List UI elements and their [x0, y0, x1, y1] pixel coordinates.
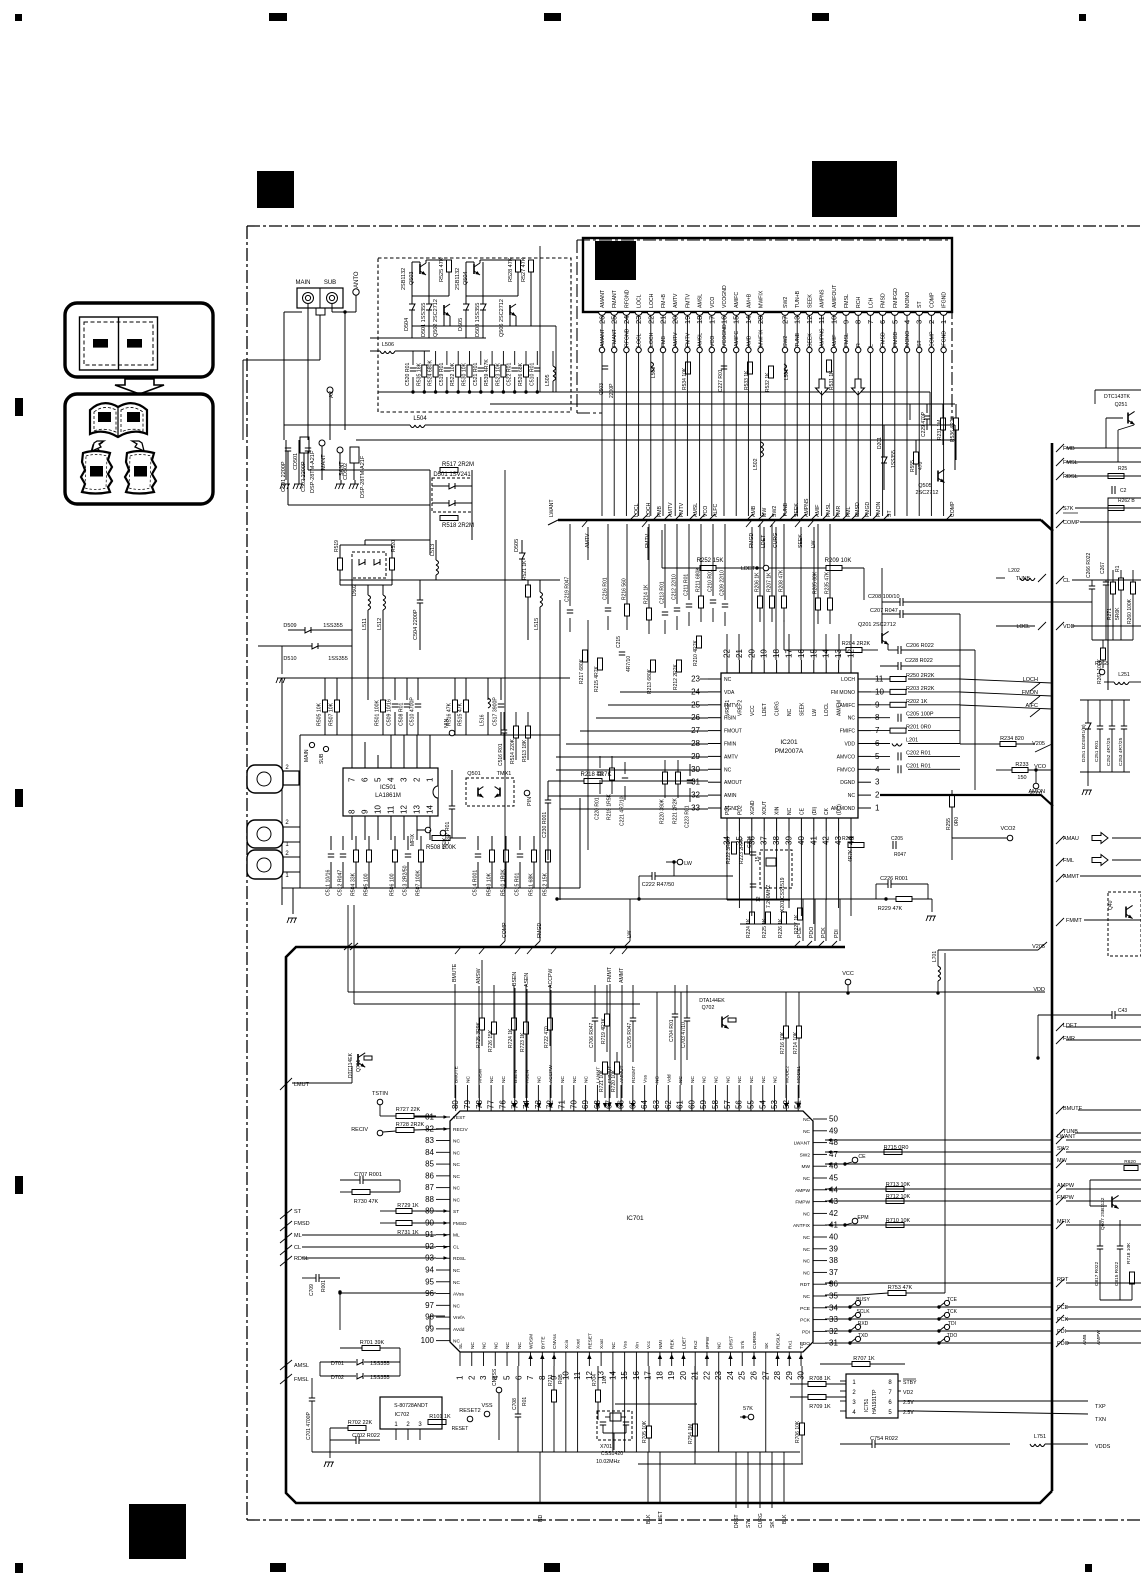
svg-text:MWFIX: MWFIX	[759, 329, 765, 347]
svg-text:FMPW: FMPW	[1057, 1195, 1075, 1201]
module box right edge	[1108, 498, 1141, 690]
svg-text:C516 R01: C516 R01	[498, 743, 504, 766]
svg-text:S7K: S7K	[1063, 506, 1074, 512]
diode D505	[463, 304, 469, 310]
svg-text:54: 54	[758, 1100, 767, 1109]
svg-text:BMUTE: BMUTE	[452, 963, 458, 982]
resistor R704 100	[596, 1390, 601, 1402]
svg-text:C817 R022: C817 R022	[1094, 1261, 1100, 1286]
svg-text:Xoat: Xoat	[599, 1338, 605, 1349]
svg-text:LOCH: LOCH	[1023, 677, 1038, 683]
svg-text:AMTV: AMTV	[673, 332, 679, 347]
svg-text:LDET: LDET	[681, 1337, 687, 1349]
svg-text:62: 62	[664, 1100, 673, 1109]
svg-text:R513 18K: R513 18K	[522, 739, 528, 762]
svg-text:VREF2: VREF2	[737, 700, 743, 716]
capacitor C229 470P	[924, 415, 930, 417]
svg-text:NC: NC	[803, 1176, 810, 1182]
wire V205 upper right	[938, 949, 1038, 951]
capacitor C230 R001	[545, 799, 551, 801]
svg-text:R271: R271	[1107, 608, 1113, 620]
capacitor C208 100/10	[899, 598, 901, 606]
resistor R261 100K	[1101, 648, 1106, 660]
svg-text:39: 39	[829, 1244, 838, 1253]
registration mark top 5	[1079, 14, 1086, 21]
svg-text:VCO2: VCO2	[1001, 826, 1016, 832]
inductor L751	[1030, 1444, 1035, 1447]
svg-text:R226 1K: R226 1K	[778, 918, 784, 938]
inductor L511	[368, 595, 371, 600]
svg-text:TUNB: TUNB	[795, 332, 801, 347]
diode D510 1SS355	[312, 643, 318, 649]
registration mark bottom 3	[544, 1563, 560, 1572]
connector CN pillar 3	[247, 850, 283, 879]
svg-text:NC: NC	[803, 1294, 810, 1300]
resistor R521 1K	[526, 585, 531, 597]
svg-text:7.200MHZ: 7.200MHZ	[766, 885, 772, 908]
wire VrefA	[430, 1315, 445, 1317]
svg-text:R215 4R7K: R215 4R7K	[594, 665, 600, 692]
svg-text:25: 25	[738, 1371, 747, 1380]
svg-text:SK: SK	[764, 1342, 770, 1349]
svg-text:C226 R001: C226 R001	[880, 876, 908, 882]
resistor R507 10K	[335, 700, 340, 712]
svg-text:R234 820: R234 820	[1000, 736, 1024, 742]
block arrow down 2	[852, 379, 865, 395]
registration mark top 2	[269, 13, 287, 21]
resistor R207 1K	[770, 596, 775, 608]
resistor R525 47K	[447, 260, 452, 272]
wires bus1 stubs down to IC201 top pins	[751, 545, 753, 660]
capacitor C512 R047	[340, 853, 346, 855]
resistor R726 15K	[492, 1022, 497, 1034]
svg-text:15: 15	[755, 856, 761, 862]
svg-text:10: 10	[374, 805, 383, 814]
svg-text:CL: CL	[294, 1245, 301, 1251]
resistor R516 47K	[453, 700, 458, 712]
svg-text:NMI: NMI	[658, 1340, 664, 1349]
connector CN pillar 1	[247, 765, 283, 793]
wires IC501 top pins up	[351, 560, 353, 755]
legend book black bar right	[127, 412, 140, 422]
svg-text:FMON: FMON	[876, 501, 882, 517]
svg-text:SW2: SW2	[800, 1152, 811, 1158]
svg-text:TDO: TDO	[947, 1333, 958, 1339]
inductor L701	[938, 966, 941, 971]
resistor R712 10K	[886, 1199, 904, 1204]
svg-text:82: 82	[425, 1124, 434, 1133]
svg-text:SUB: SUB	[324, 280, 336, 286]
resistor R534 10K	[686, 362, 691, 374]
svg-text:ST: ST	[917, 340, 923, 347]
diode D508 1SS355	[480, 304, 486, 310]
resistor R517 2R2M	[440, 468, 458, 473]
svg-text:LOCL: LOCL	[637, 294, 643, 308]
svg-text:53: 53	[770, 1100, 779, 1109]
capacitor C704 R01	[672, 1013, 678, 1015]
svg-text:PIN: PIN	[527, 797, 533, 806]
svg-text:X701: X701	[600, 1444, 612, 1450]
svg-text:R501 100K: R501 100K	[375, 700, 381, 726]
black index rectangle upper-right	[812, 161, 897, 217]
svg-text:AMMT: AMMT	[619, 967, 625, 983]
wires coil block	[340, 544, 392, 546]
wire R701 column risers	[819, 1364, 821, 1384]
svg-text:29: 29	[691, 752, 700, 761]
svg-text:AMSL: AMSL	[693, 503, 699, 517]
svg-text:VCO: VCO	[703, 506, 709, 517]
svg-text:NC: NC	[453, 1186, 460, 1192]
resistor R508 100K	[432, 836, 450, 841]
svg-text:L: L	[868, 344, 874, 347]
svg-text:AMON: AMON	[1029, 789, 1046, 795]
resistor R520 2R2M	[390, 558, 395, 570]
capacitor C511 10/16	[328, 853, 334, 855]
resistor R504 33K	[354, 850, 359, 862]
svg-text:R555: R555	[910, 460, 916, 472]
svg-text:AMPW: AMPW	[1096, 1330, 1102, 1345]
svg-text:FMSD: FMSD	[453, 1221, 467, 1227]
wire horizontal rail y440	[356, 439, 955, 441]
legend sheet left	[81, 451, 112, 494]
svg-text:R711: R711	[548, 1374, 554, 1386]
svg-text:ST: ST	[294, 1209, 302, 1215]
svg-text:C267: C267	[1100, 562, 1106, 574]
resistor R201 0R0	[890, 728, 906, 733]
resistor R220 390K	[663, 772, 668, 784]
svg-text:NC: NC	[848, 716, 856, 722]
svg-text:R530 10K: R530 10K	[462, 362, 468, 386]
svg-text:FMSD: FMSD	[294, 1221, 310, 1227]
resistor R719 4R1K	[605, 1014, 610, 1026]
svg-text:ANSW: ANSW	[476, 968, 482, 984]
capacitor C501 2200P	[285, 447, 291, 449]
svg-text:FML: FML	[846, 507, 852, 517]
svg-text:DSP-28TM-A21F: DSP-28TM-A21F	[310, 450, 316, 493]
resistor R707 1K	[852, 1362, 870, 1367]
svg-text:NC: NC	[560, 1076, 566, 1083]
svg-text:WDSM: WDSM	[529, 1334, 535, 1349]
svg-text:22: 22	[702, 1371, 711, 1380]
wire AVss rail	[340, 1292, 436, 1294]
resistor R205 68K	[816, 598, 821, 610]
svg-text:TXD: TXD	[858, 1333, 868, 1339]
diode pack D502	[352, 552, 386, 578]
resistor R535 18K	[422, 365, 427, 377]
svg-text:AMPNS: AMPNS	[804, 498, 810, 517]
svg-text:29: 29	[785, 1371, 794, 1380]
svg-text:PCK: PCK	[821, 927, 827, 938]
capacitor C709 R001	[315, 1274, 317, 1282]
svg-text:NC: NC	[787, 807, 793, 815]
svg-text:D509: D509	[283, 623, 296, 629]
svg-text:BMUTE: BMUTE	[1063, 1106, 1083, 1112]
svg-text:AMAU: AMAU	[1063, 836, 1079, 842]
svg-text:VCO: VCO	[710, 336, 716, 347]
svg-text:LDET: LDET	[741, 566, 756, 572]
svg-text:R514 220K: R514 220K	[510, 738, 516, 764]
terminal VCC	[845, 979, 851, 985]
svg-text:HA1931TP: HA1931TP	[872, 1389, 878, 1414]
svg-text:RDSL: RDSL	[453, 1256, 466, 1262]
svg-text:55: 55	[746, 1100, 755, 1109]
svg-text:77: 77	[487, 1100, 496, 1109]
svg-text:1SS355: 1SS355	[891, 450, 897, 468]
svg-text:D201: D201	[877, 437, 883, 449]
terminal VCO1	[1033, 783, 1039, 789]
inductor L513	[436, 560, 439, 565]
svg-text:AMVCO: AMVCO	[837, 754, 855, 760]
svg-text:D504: D504	[404, 318, 410, 331]
wires right of IC201 vertical collectors	[959, 614, 961, 744]
svg-text:VCO: VCO	[1034, 764, 1047, 770]
wires from IC501 crossing frame into IC701 area	[347, 905, 349, 992]
IC201 pin 12	[850, 660, 852, 673]
svg-text:SEEK: SEEK	[807, 333, 813, 347]
transistor Q201 2SC2712	[881, 633, 883, 644]
svg-text:12: 12	[400, 805, 409, 814]
svg-text:AMMT: AMMT	[1063, 874, 1080, 880]
resistor R219 1R5K	[610, 768, 615, 780]
svg-text:CL: CL	[453, 1244, 459, 1250]
svg-text:DTC114EK: DTC114EK	[348, 1052, 354, 1078]
svg-text:R220 390K: R220 390K	[660, 798, 666, 824]
svg-text:R229 47K: R229 47K	[878, 906, 903, 912]
svg-text:100: 100	[602, 1375, 608, 1384]
capacitor C211 R01	[686, 603, 692, 605]
capacitor C217 12	[750, 883, 756, 885]
svg-text:26: 26	[750, 1371, 759, 1380]
svg-text:TXN: TXN	[1095, 1417, 1106, 1423]
svg-text:R1: R1	[1115, 565, 1121, 572]
svg-text:50: 50	[829, 1115, 838, 1124]
resistor R209 10K	[826, 566, 842, 571]
capacitor C210 R01	[710, 599, 716, 601]
svg-text:PCE: PCE	[797, 927, 803, 938]
black index square in connector	[595, 241, 636, 280]
legend small arrow right	[132, 441, 144, 451]
legend sheet right	[125, 451, 156, 494]
svg-text:ACCPW: ACCPW	[548, 969, 554, 988]
wires connector columns down to bus	[601, 391, 603, 516]
svg-text:R507 10K: R507 10K	[329, 702, 335, 726]
IC201 pin 11	[858, 678, 871, 680]
wire down to tuner coils	[429, 518, 431, 555]
svg-text:Vss: Vss	[643, 1074, 649, 1083]
svg-text:NC: NC	[702, 1076, 708, 1083]
diode D504	[409, 304, 415, 310]
capacitor C205 100P	[897, 714, 899, 722]
svg-text:FMSD: FMSD	[881, 332, 887, 347]
svg-text:R706 10K: R706 10K	[795, 1420, 801, 1443]
terminal LW	[677, 859, 683, 865]
capacitor C207 R047	[899, 610, 901, 618]
svg-text:LWANT: LWANT	[549, 499, 555, 517]
svg-text:TUNB: TUNB	[1016, 576, 1031, 582]
resistor R728 2R2K	[396, 1128, 414, 1133]
svg-text:14: 14	[426, 805, 435, 814]
wire amp rail y338	[370, 337, 486, 339]
svg-text:C252 4R7/25: C252 4R7/25	[1106, 737, 1112, 766]
IC201 pin 34	[726, 818, 728, 831]
svg-text:R723 1K: R723 1K	[520, 1032, 526, 1052]
svg-text:2SB1132: 2SB1132	[401, 268, 407, 290]
svg-text:X201 CSS1519: X201 CSS1519	[780, 877, 786, 912]
capacitor C705 R047	[630, 1017, 636, 1019]
resistor R716 10K	[784, 1026, 789, 1038]
svg-text:TDI: TDI	[948, 1321, 956, 1327]
svg-text:NC: NC	[470, 1342, 476, 1349]
resistor R507 100K	[419, 850, 424, 862]
svg-text:MONO: MONO	[905, 331, 911, 347]
resistor R713 10K	[886, 1187, 904, 1192]
svg-text:Rx2: Rx2	[693, 1340, 699, 1349]
resistor R234 820	[1000, 742, 1016, 747]
svg-text:SK: SK	[770, 1521, 776, 1528]
svg-text:AMPNS: AMPNS	[820, 289, 826, 308]
svg-text:Q607 2SB1132: Q607 2SB1132	[1100, 1197, 1106, 1230]
resistor R262	[1108, 506, 1124, 511]
svg-text:FMSL: FMSL	[826, 503, 832, 517]
svg-text:SW2: SW2	[772, 506, 778, 517]
inductor L506	[380, 351, 385, 354]
svg-text:ASEN: ASEN	[525, 1069, 531, 1083]
svg-text:SW2: SW2	[783, 336, 789, 347]
svg-text:R534 10K: R534 10K	[682, 367, 688, 390]
wire COMP long vertical	[504, 470, 506, 941]
transistor Q503 2SB1132	[419, 264, 421, 274]
svg-text:85: 85	[425, 1160, 434, 1169]
terminal VCO2 wire	[952, 837, 1007, 839]
svg-text:R715 0R0: R715 0R0	[884, 1145, 909, 1151]
svg-text:R527 47K: R527 47K	[521, 257, 527, 282]
right vertical bus thick	[1051, 443, 1054, 1491]
svg-text:SEEK: SEEK	[794, 503, 800, 517]
capacitor C221 4R7/10	[622, 777, 628, 779]
terminal MFIX	[425, 827, 431, 833]
svg-text:NC: NC	[466, 1076, 472, 1083]
capacitor C754 R022	[871, 1440, 873, 1448]
svg-text:C702 R022: C702 R022	[352, 1433, 380, 1439]
svg-text:RECIV: RECIV	[453, 1127, 468, 1133]
svg-text:VCOGND: VCOGND	[722, 285, 728, 308]
svg-text:FMB: FMB	[661, 336, 667, 347]
serial rows PCE PCK PDI PDO	[825, 1306, 1052, 1308]
wire bottom-left risers	[339, 1293, 341, 1348]
svg-text:TEST: TEST	[453, 1115, 465, 1121]
svg-text:FMOUT: FMOUT	[724, 729, 742, 735]
resistor R202 1K	[890, 702, 906, 707]
svg-text:Q201 2SC2712: Q201 2SC2712	[858, 622, 896, 628]
svg-text:C229 470P: C229 470P	[921, 411, 927, 437]
IC201 pin 33	[708, 807, 721, 809]
resistor R513 18K	[526, 726, 531, 738]
transistor Q504 2SB1132	[473, 264, 475, 274]
capacitor C515 R01	[517, 853, 523, 855]
svg-text:R753 47K: R753 47K	[888, 1285, 913, 1291]
svg-text:FMR: FMR	[836, 506, 842, 517]
svg-text:R255: R255	[946, 818, 952, 830]
registration mark top 3	[544, 13, 561, 21]
svg-text:R709 1K: R709 1K	[809, 1404, 831, 1410]
svg-text:45: 45	[829, 1174, 838, 1183]
svg-text:C221 4R7/10: C221 4R7/10	[620, 796, 626, 826]
svg-text:AMIFOUT: AMIFOUT	[832, 284, 838, 308]
IC201 pin 31	[708, 781, 721, 783]
wire amp cell rail y326	[412, 325, 556, 327]
svg-text:42: 42	[829, 1209, 838, 1218]
svg-text:C704 R01: C704 R01	[669, 1019, 675, 1042]
svg-text:XOUT: XOUT	[762, 801, 768, 815]
svg-text:DTC143TK: DTC143TK	[1104, 394, 1130, 400]
svg-text:TUN+B: TUN+B	[795, 290, 801, 308]
svg-text:IC201: IC201	[780, 739, 798, 746]
svg-text:C703 47/10: C703 47/10	[681, 1022, 687, 1048]
svg-text:2: 2	[467, 1375, 476, 1380]
terminal PIN	[524, 790, 530, 796]
svg-text:18: 18	[772, 649, 781, 658]
connector CN201 body	[583, 238, 952, 312]
legend open book	[90, 403, 147, 437]
svg-text:22: 22	[723, 649, 732, 658]
svg-text:AMB: AMB	[1082, 1335, 1088, 1345]
IC201 pin 41	[813, 818, 815, 831]
svg-text:MWFIX: MWFIX	[759, 290, 765, 308]
capacitor C514 R001	[475, 853, 481, 855]
svg-text:ND: ND	[538, 1514, 544, 1522]
svg-text:CD501: CD501	[293, 453, 299, 470]
svg-text:C521 R01: C521 R01	[473, 363, 479, 386]
svg-text:ST: ST	[453, 1209, 459, 1215]
svg-text:R524 680K: R524 680K	[428, 360, 434, 386]
diode pack D501 1SV241	[432, 478, 472, 512]
terminal BUSY	[855, 1300, 860, 1305]
svg-text:Q502 2SC2712: Q502 2SC2712	[433, 299, 439, 337]
terminal TCK	[944, 1312, 949, 1317]
svg-text:R202 1K: R202 1K	[906, 699, 928, 705]
resistor R721 10K	[603, 1062, 608, 1074]
svg-text:C507 R01: C507 R01	[445, 822, 451, 845]
svg-text:PCE: PCE	[800, 1306, 810, 1312]
capacitor C224 15	[750, 851, 756, 853]
terminal RECIV	[377, 1130, 383, 1136]
svg-text:AVdd: AVdd	[453, 1327, 465, 1333]
svg-text:R525 47K: R525 47K	[439, 257, 445, 282]
svg-text:FMSL: FMSL	[294, 1377, 309, 1383]
svg-text:88: 88	[425, 1195, 434, 1204]
svg-text:NC: NC	[453, 1197, 460, 1203]
wires into IC201 left pins	[560, 678, 708, 680]
IC201 pin 42	[825, 818, 827, 831]
resistor R511 68K	[532, 850, 537, 862]
svg-text:NC: NC	[803, 1235, 810, 1241]
capacitor C703 47/10	[684, 1017, 690, 1019]
svg-text:REK: REK	[670, 1338, 676, 1349]
svg-text:AMIFC: AMIFC	[734, 331, 740, 347]
svg-text:AIFC: AIFC	[1025, 703, 1038, 709]
svg-text:R730 47K: R730 47K	[354, 1199, 379, 1205]
IC201 pin 13	[838, 660, 840, 673]
resistor R514 220K	[514, 726, 519, 738]
svg-text:L751: L751	[1034, 1434, 1046, 1440]
svg-text:76: 76	[498, 1100, 507, 1109]
svg-text:FMTV: FMTV	[685, 293, 691, 308]
inductor L505	[553, 366, 556, 371]
svg-text:1: 1	[456, 1375, 465, 1380]
diode D505 1SS355	[519, 553, 525, 559]
registration mark bottom 5	[1085, 1564, 1092, 1572]
capacitor C219 R047	[567, 609, 573, 611]
